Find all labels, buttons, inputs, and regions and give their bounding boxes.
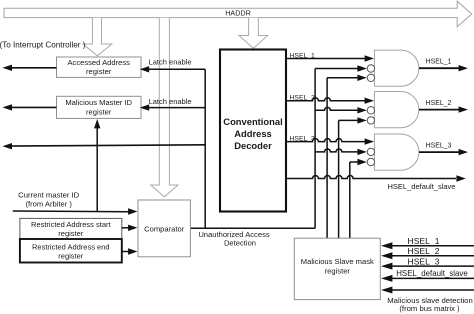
wire HSEL_default_slave from decoder (hops over A,B,C,D) [286,175,466,191]
wire mask input HSEL_1 [381,236,474,249]
svg-text:(To Interrupt Controller ): (To Interrupt Controller ) [0,41,86,50]
wire branch up to Malicious Master ID register [94,119,100,212]
svg-text:Malicious Master ID: Malicious Master ID [65,98,132,107]
svg-text:Accessed Address: Accessed Address [67,58,130,67]
svg-text:HSEL_3: HSEL_3 [426,142,452,149]
svg-text:HSEL_3: HSEL_3 [290,136,316,143]
wire HSEL1 from decoder to gate U2 [286,53,374,62]
register Restricted Address start [20,218,122,239]
svg-text:Conventional: Conventional [223,116,282,127]
wire HSEL3 from decoder to gate U4 (hops over verticals A,B,C) [286,136,374,145]
wire mask input malicious slave detection [381,287,474,314]
wire arrow left from unauthorized-access vertical (to interrupt controller) [3,143,206,149]
svg-text:Current master ID: Current master ID [18,190,80,199]
wire HSEL2 from decoder to gate U3 (hops over verticals A,B) [286,95,374,104]
svg-text:HSEL_2: HSEL_2 [426,100,452,107]
comparator U5 [138,200,190,257]
svg-text:HSEL_2: HSEL_2 [407,246,439,256]
wire unauthorized access: comparator output to vertical A [190,227,315,229]
wire arrow left from Malicious Master ID register [3,104,57,110]
wire gate U4 input 2 from vertical A (hops over B,C) [315,149,367,155]
bus HADDR [4,1,472,27]
svg-text:(from Arbiter ): (from Arbiter ) [25,199,72,208]
wire gate U2 input 3 from vertical B [327,75,367,81]
gate U2 AND (HSEL_1) [367,50,419,86]
register Malicious Slave mask [294,238,380,299]
wire latch enable 2 [140,97,205,111]
wire end register to comparator [122,248,138,254]
wire gate U2 input 2 from vertical A [315,65,367,71]
svg-text:register: register [58,229,84,238]
wire vertical C (mask bit 2 up to gate U3) [338,120,340,238]
svg-text:register: register [86,67,112,76]
svg-text:HSEL_default_slave: HSEL_default_slave [396,269,468,278]
wire vertical A (unauthorized access up to gates) [314,69,316,229]
hollow arrow from bus to Conventional Address Decoder [239,18,268,49]
svg-text:HSEL_1: HSEL_1 [407,236,439,246]
svg-text:Malicious Slave mask: Malicious Slave mask [301,257,374,266]
wire arrow left from Accessed Address register [3,65,57,71]
wire vertical D (mask bit 3 up to gate U4) [349,162,351,238]
svg-text:(from bus matrix ): (from bus matrix ) [399,304,460,313]
register Restricted Address end [20,239,122,263]
wire output HSEL_1 [419,59,468,72]
wire gate U3 input 2 from vertical A (hop over B) [315,107,367,113]
svg-text:register: register [86,108,112,117]
register Accessed Address [57,57,142,77]
wire mask input HSEL_2 [381,246,474,259]
wire unauthorized-access vertical trunk [204,69,206,228]
wire gate U3 input 3 from vertical C [339,117,367,123]
svg-text:Latch enable: Latch enable [149,97,192,106]
svg-text:HSEL_default_slave: HSEL_default_slave [388,182,456,191]
hollow arrow from bus to Comparator [151,18,178,197]
decoder U1 Conventional Address Decoder [220,50,286,212]
gate U3 AND (HSEL_2) [367,92,419,128]
svg-text:Unauthorized Access: Unauthorized Access [198,230,270,239]
svg-text:Detection: Detection [224,239,256,248]
wire output HSEL_2 [419,100,468,113]
wire vertical B (mask bit 1 up to gate U2) [326,78,328,238]
svg-text:Latch enable: Latch enable [149,58,192,67]
wire mask input HSEL_default_slave [381,269,474,282]
wire output HSEL_3 [419,142,468,155]
svg-text:HADDR: HADDR [225,8,251,17]
svg-text:Restricted Address start: Restricted Address start [31,220,112,229]
register Malicious Master ID [57,96,142,118]
wire start register to comparator [122,225,138,231]
svg-text:Decoder: Decoder [234,140,272,151]
svg-text:HSEL_3: HSEL_3 [407,256,439,266]
hollow arrow from bus to Accessed Address register [83,18,112,56]
wire latch enable 1 [140,58,205,73]
svg-text:Restricted Address end: Restricted Address end [32,243,110,252]
svg-text:Address: Address [234,128,272,139]
svg-text:register: register [325,266,351,275]
gate U4 AND (HSEL_3) [367,134,419,170]
svg-text:HSEL_2: HSEL_2 [290,95,316,102]
wire mask input HSEL_3 [381,256,474,269]
svg-text:HSEL_1: HSEL_1 [290,53,316,60]
svg-text:HSEL_1: HSEL_1 [426,59,452,66]
wire Current master ID to comparator [13,208,138,214]
svg-text:Comparator: Comparator [144,224,185,233]
wire gate U4 input 3 from vertical D [350,159,367,165]
svg-text:register: register [58,251,84,260]
